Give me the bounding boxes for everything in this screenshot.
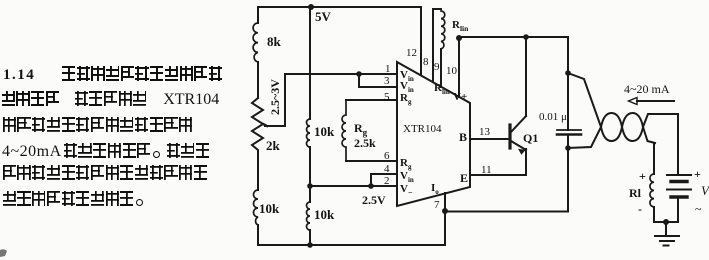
inductor coil pin9 [441,11,445,49]
pin number 7 [434,199,440,211]
wire emitter lead [525,149,527,175]
IC pin label Vin- [400,80,414,94]
wire loop bottom right to RL [653,143,655,174]
label 2.5k [354,136,376,151]
pin number 11 [481,164,492,176]
label 5V [315,9,331,25]
scan smudge bottom left [0,249,7,257]
potentiometer tap stub [263,124,267,126]
pin number 3 [384,75,390,87]
resistor Rg 2.5k [342,100,346,161]
wire pin1 [359,73,397,75]
battery stubs [677,175,679,222]
transistor Q1 base bar [508,125,511,148]
pin 10 lead [458,38,460,97]
IC pin label Vminus [400,183,413,197]
wire RL bottom [654,207,678,222]
wire bottom rail [258,211,445,245]
wire pin11 emitter [470,174,526,176]
label Rg [354,121,367,137]
battery V plates [667,174,691,176]
label battery V [701,183,709,199]
label battery minus [695,202,702,217]
label 10k rail1 [259,201,279,217]
IC pin label Rg lower [400,157,411,171]
transistor Q1 collector [511,116,526,132]
pin number 13 [479,126,490,138]
IC pin label V+ [453,91,467,103]
IC pin label Rlin [434,82,450,96]
label Rl [629,186,641,201]
wire pin7 to loop return [445,211,568,213]
capacitor C 0.01u plates [557,129,581,131]
pin number 10 [446,65,457,77]
wire pin5 [346,99,397,101]
pin number 1 [385,63,391,75]
IC pin label Vin+ [400,69,414,83]
pin 7 lead [444,193,446,211]
label Q1 [523,131,538,146]
label RL plus [639,169,646,184]
pin number 9 [434,61,440,73]
label 8k [267,34,281,50]
pin number 5 [384,91,390,103]
potentiometer 2k zigzag [252,98,263,155]
resistor 10k rail2 upper [307,119,310,147]
node pin2/pin4 junction [368,183,374,189]
pin 12 lead [420,7,422,75]
resistor 10k rail2 lower [307,202,310,230]
wire pin6 [346,160,397,162]
label 0.01u [539,111,567,123]
label 2k [266,138,280,154]
pin number 4 [384,163,390,175]
node 5V junction [308,4,314,10]
resistor RL [650,174,654,207]
transistor Q1 emitter arrowhead [518,149,526,155]
node pin7 junction [442,208,448,214]
wire pin3 bracket [359,74,397,87]
ground [655,222,679,246]
label 10k rail2 lower [314,207,334,223]
label 2.5-3V rotated [268,79,283,115]
pin number 8 [423,56,429,68]
wire rail2 segments [309,7,311,245]
paragraph text block (simulated CJK) [3,66,223,84]
pin 8 lead [432,9,434,82]
wire pot tap to bridge output [265,74,359,126]
wire collector lead [525,37,527,116]
IC pin label Io [431,182,439,196]
label RL minus [638,202,642,217]
node bridge output junction [356,71,362,77]
op-amp U1 XTR104 body [397,62,470,206]
node twisted pair bottom [565,145,571,151]
resistor 10k rail1 bottom [254,190,259,225]
twisted pair wire B [568,113,678,148]
label 10k rail2 upper [314,124,334,140]
IC name XTR104 [403,123,442,135]
wire vref 2.5V to pin2 [310,185,397,187]
IC pin label B [459,130,467,145]
wire loop top right to battery [677,114,679,175]
label 4-20mA arrow [637,100,674,102]
IC pin label Rg upper [400,92,411,106]
node rail2 vref junction [307,183,313,189]
pin number 2 [384,175,390,187]
wire top rail 5V [258,6,421,8]
wire capacitor branch [567,37,569,212]
wire base pin13 [470,138,509,140]
wire rail1 segments [257,7,259,245]
node ground junction [663,219,669,225]
node Rlin [456,35,462,41]
pin number 12 [406,47,417,59]
label 4-20 mA [624,82,670,97]
wire Rlin rail [459,36,568,38]
pin 9 lead [440,49,442,87]
label battery plus [694,167,701,182]
node rail2 bottom junction [307,242,313,248]
node collector junction [523,34,529,40]
wire pin4 bracket [371,174,397,186]
pin number 6 [384,150,390,162]
inductor isolation loop pins 8-9 [433,8,441,10]
transistor Q1 emitter [511,141,526,150]
IC pin label E [460,171,468,186]
resistor 8k [253,23,258,62]
twisted pair wire A [568,73,655,143]
node twisted pair top [565,70,571,76]
label Rlin top [452,19,468,33]
label 2.5V [362,193,386,208]
IC pin label Vin lower [400,170,414,184]
